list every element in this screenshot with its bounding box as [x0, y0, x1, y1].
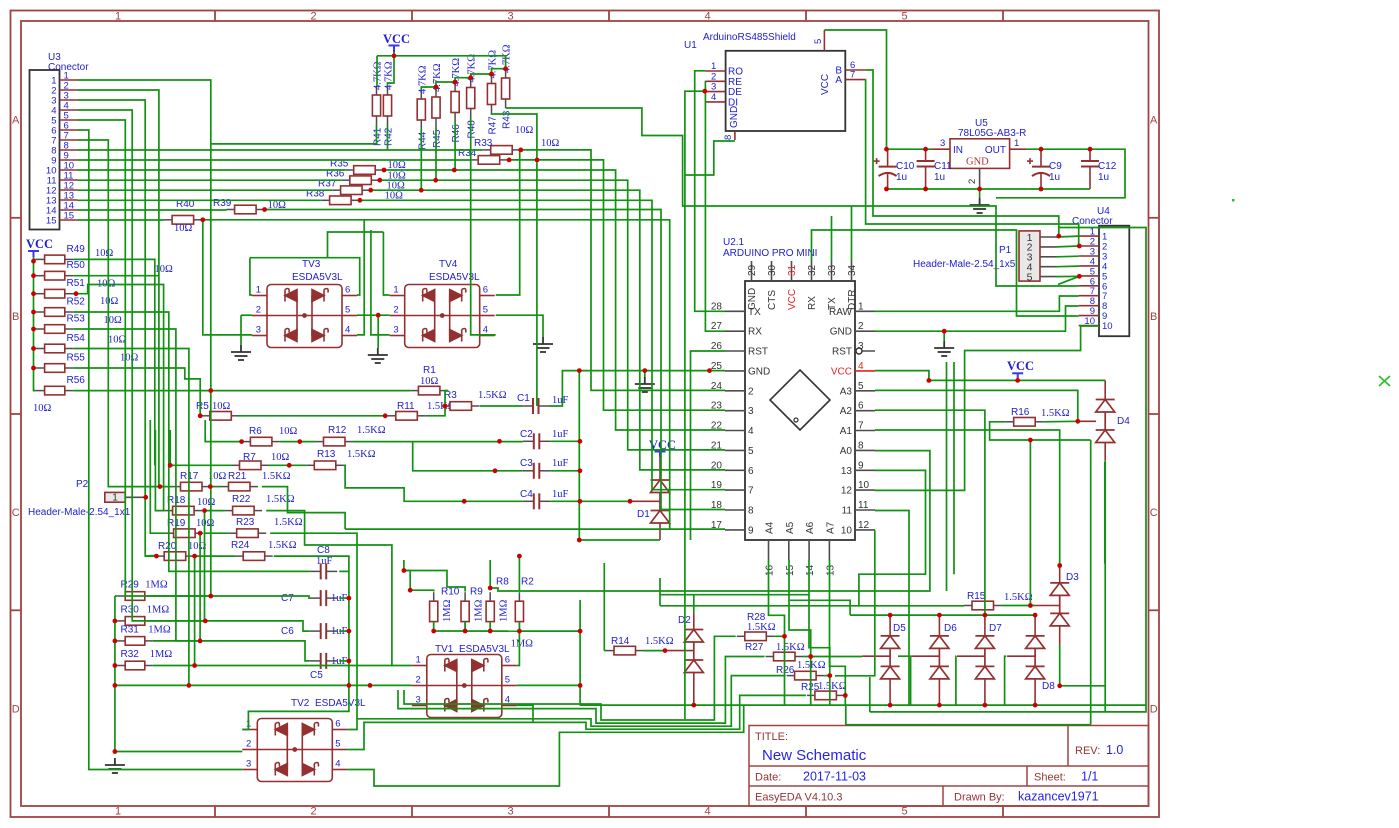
resistor R5: [202, 415, 210, 417]
junction: [198, 531, 203, 536]
junction: [203, 619, 208, 624]
svg-text:10Ω: 10Ω: [155, 264, 174, 275]
resistor R23: [229, 532, 237, 534]
wire R9 bot: [464, 622, 466, 631]
wire VCC stub: [34, 311, 36, 313]
svg-text:1uF: 1uF: [552, 429, 569, 440]
wire U5 gnd rail: [887, 188, 1091, 190]
junction: [1075, 419, 1080, 424]
resistor R2: [518, 592, 520, 601]
svg-text:1uF: 1uF: [552, 395, 569, 406]
wire R40 to TV3.3: [202, 220, 205, 335]
wire A5 to R27: [789, 560, 811, 657]
svg-text:1: 1: [115, 806, 121, 818]
ground: [533, 337, 553, 352]
wire R3-C1: [480, 405, 522, 407]
wire R46 top chain: [455, 78, 471, 82]
resistor R33: [483, 149, 491, 151]
resistor R8: [489, 592, 491, 601]
junction: [376, 313, 381, 318]
junction: [347, 683, 352, 688]
junction: [208, 594, 213, 599]
wire TV3.1-6 link: [250, 258, 360, 295]
svg-text:2: 2: [858, 321, 864, 332]
capacitor C5: [310, 660, 321, 662]
junction: [358, 198, 363, 203]
wire v1090: [1090, 440, 1092, 725]
svg-text:9: 9: [748, 525, 754, 536]
wire P1.5-U4.5: [1057, 275, 1080, 277]
resistor R36: [342, 179, 350, 181]
resistor R46: [454, 83, 456, 92]
svg-text:Header-Male-2.54_1x1: Header-Male-2.54_1x1: [28, 507, 131, 518]
svg-text:C12: C12: [1098, 161, 1117, 172]
junction: [208, 388, 213, 393]
wire R48 to TV4.4: [471, 118, 496, 335]
svg-text:12: 12: [858, 520, 870, 531]
wire D3 bot link: [1060, 686, 1106, 712]
svg-text:REV:: REV:: [1075, 745, 1100, 757]
svg-text:4: 4: [335, 759, 340, 770]
wire filler v954: [953, 362, 955, 574]
junction: [31, 310, 36, 315]
junction: [377, 178, 382, 183]
svg-text:R10: R10: [441, 587, 460, 598]
wire U3.6: [78, 130, 243, 770]
resistor R53: [36, 328, 45, 330]
wire R52 out: [74, 312, 310, 571]
junction: [578, 683, 583, 688]
svg-text:6: 6: [748, 466, 754, 477]
wire U3.5: [78, 120, 310, 598]
resistor R27: [766, 656, 774, 658]
net flag VCC (top): [389, 46, 400, 53]
svg-text:TITLE:: TITLE:: [755, 731, 788, 743]
wire R31 out: [153, 640, 200, 642]
wire U3.11a: [78, 179, 342, 181]
junction: [143, 495, 148, 500]
wire D6 mid down: [910, 656, 913, 705]
svg-text:GND: GND: [830, 327, 852, 338]
svg-text:ARDUINO PRO MINI: ARDUINO PRO MINI: [723, 248, 817, 259]
svg-text:10Ω: 10Ω: [174, 223, 193, 234]
wire U3.15a: [78, 219, 165, 221]
svg-text:6: 6: [505, 655, 510, 666]
resistor R20: [156, 555, 164, 557]
svg-text:R29: R29: [121, 580, 140, 591]
junction: [493, 468, 498, 473]
svg-text:5: 5: [505, 675, 510, 686]
capacitor C1: [522, 405, 533, 407]
svg-text:4: 4: [711, 92, 716, 103]
TVS diode array TV1 (ESDA5V3L): [412, 655, 517, 718]
svg-text:GND: GND: [748, 366, 770, 377]
svg-text:Drawn By:: Drawn By:: [954, 792, 1005, 804]
wire U3.11b: [379, 180, 725, 450]
junction: [937, 703, 942, 708]
svg-text:B: B: [1150, 311, 1157, 323]
svg-text:1.5KΩ: 1.5KΩ: [262, 471, 291, 482]
diode D4: [1096, 400, 1115, 443]
svg-text:33: 33: [827, 264, 838, 276]
svg-text:9: 9: [858, 460, 864, 471]
wire TV1.2 line: [115, 684, 412, 686]
svg-text:R48: R48: [467, 120, 478, 139]
wire v194 to TV1.1: [195, 556, 392, 665]
wire VCC stub: [34, 258, 36, 260]
capacitor C4: [523, 500, 534, 502]
svg-text:2: 2: [748, 386, 754, 397]
svg-text:5: 5: [858, 381, 864, 392]
wire C3 left: [495, 470, 523, 472]
svg-text:4: 4: [748, 426, 754, 437]
resistor R47: [491, 75, 493, 84]
resistor R21: [221, 486, 229, 488]
junction: [1088, 147, 1093, 152]
wire R8 bot: [489, 622, 491, 631]
wire v200: [199, 533, 201, 641]
svg-text:R1: R1: [423, 365, 436, 376]
svg-text:1: 1: [1014, 138, 1019, 149]
wire U3.1: [78, 80, 211, 391]
wire R10 bot: [433, 622, 435, 631]
junction: [1077, 274, 1082, 279]
wire R15 right: [1002, 605, 1036, 607]
svg-text:Date:: Date:: [755, 772, 781, 784]
junction: [1033, 703, 1038, 708]
wire R44 bottom: [420, 129, 422, 190]
svg-text:D3: D3: [1066, 572, 1079, 583]
svg-text:1: 1: [858, 301, 864, 312]
junction: [368, 188, 373, 193]
junction: [707, 368, 712, 373]
wire D5 mid link: [898, 655, 909, 657]
svg-text:GND: GND: [729, 106, 740, 128]
svg-text:4: 4: [704, 806, 710, 818]
resistor R41: [376, 86, 378, 95]
svg-text:12: 12: [841, 486, 853, 497]
junction: [392, 53, 397, 58]
svg-text:10: 10: [1102, 321, 1113, 332]
junction: [382, 168, 387, 173]
junction: [1039, 187, 1044, 192]
wire U1.A to U4.2: [865, 80, 1078, 246]
svg-text:1.0: 1.0: [1106, 743, 1123, 757]
wire R27 left loop L2: [398, 657, 765, 724]
svg-text:Header-Male-2.54_1x5: Header-Male-2.54_1x5: [913, 259, 1016, 270]
svg-text:A7: A7: [825, 521, 836, 534]
resistor R44: [420, 90, 422, 99]
svg-text:10Ω: 10Ω: [108, 335, 127, 346]
svg-text:R16: R16: [1011, 407, 1030, 418]
wire R54 out: [74, 349, 189, 686]
svg-text:6: 6: [858, 401, 864, 412]
svg-text:D7: D7: [989, 623, 1002, 634]
wire R2 bot: [518, 622, 520, 632]
junction: [808, 654, 813, 659]
resistor R49: [36, 258, 45, 260]
svg-text:R27: R27: [745, 642, 764, 653]
svg-text:C6: C6: [281, 626, 294, 637]
wire C4 right to D1: [550, 500, 630, 502]
wire TV1.4 down: [517, 705, 533, 723]
diode D6: [930, 636, 949, 679]
wire R7 left: [170, 430, 231, 465]
wire U3.9b: [509, 160, 725, 410]
svg-text:32: 32: [807, 264, 818, 276]
diode D8: [1026, 636, 1045, 679]
svg-text:10Ω: 10Ω: [271, 452, 290, 463]
TVS diode array TV2 (ESDA5V3L): [242, 719, 347, 782]
capacitor C7: [310, 597, 321, 599]
resistor R25: [807, 694, 815, 696]
wire R16 right: [1043, 420, 1078, 423]
wire R10 top: [404, 571, 434, 592]
wire rail left elbow: [790, 600, 850, 615]
svg-text:R45: R45: [432, 129, 443, 148]
resistor R37: [333, 189, 341, 191]
wire 12 to U4.10: [875, 326, 1099, 490]
svg-text:4.7KΩ: 4.7KΩ: [373, 61, 384, 90]
svg-text:8: 8: [748, 506, 754, 517]
wire R14 left up: [603, 563, 605, 651]
svg-text:VCC: VCC: [831, 366, 852, 377]
wire R53 out: [74, 329, 310, 661]
wire U5 out rail: [1027, 148, 1091, 150]
wire U3.10a: [78, 169, 346, 171]
junction: [31, 259, 36, 264]
wire P1.5 diag: [1058, 276, 1079, 284]
wire R18-R22: [204, 510, 225, 512]
svg-text:A6: A6: [805, 521, 816, 534]
wire U3.13a: [78, 199, 322, 201]
svg-text:D: D: [1150, 703, 1158, 715]
junction: [1039, 147, 1044, 152]
svg-text:1MΩ: 1MΩ: [511, 639, 534, 650]
svg-text:16: 16: [765, 564, 776, 576]
svg-text:C4: C4: [520, 489, 533, 500]
wire U3.7: [78, 140, 173, 487]
svg-text:TV2: TV2: [291, 698, 310, 709]
wire A7 to R25: [830, 560, 846, 695]
wire VCC stub: [34, 293, 36, 295]
capacitor C11: [925, 149, 927, 161]
junction: [578, 629, 583, 634]
svg-text:1: 1: [115, 11, 121, 23]
svg-text:D: D: [12, 703, 20, 715]
svg-text:1.5KΩ: 1.5KΩ: [274, 517, 303, 528]
svg-text:R53: R53: [67, 314, 86, 325]
wire P1.3-U4.3: [1057, 255, 1079, 258]
svg-text:1MΩ: 1MΩ: [499, 599, 510, 622]
resistor R39: [227, 209, 235, 211]
wire R19-R23: [205, 532, 229, 534]
svg-text:1u: 1u: [934, 172, 945, 183]
wire VCC4: [875, 371, 929, 381]
wire R31 in: [115, 640, 117, 642]
svg-text:1: 1: [416, 655, 421, 666]
svg-text:34: 34: [847, 264, 858, 276]
svg-text:1: 1: [256, 285, 261, 296]
wire TV4.3: [371, 230, 390, 335]
junction: [262, 207, 267, 212]
junction: [507, 158, 512, 163]
junction: [31, 346, 36, 351]
svg-text:ESDA5V3L: ESDA5V3L: [315, 698, 366, 709]
resistor R51: [36, 293, 45, 295]
ground: [934, 341, 954, 356]
capacitor C8: [310, 570, 321, 572]
wire TV4.5 gnd: [496, 315, 543, 337]
wire rail 631: [519, 630, 580, 632]
wire v210 down: [210, 391, 212, 596]
wire U3.8a: [78, 149, 483, 151]
junction: [113, 619, 118, 624]
svg-text:3: 3: [393, 325, 398, 336]
wire U3.10b: [383, 170, 725, 430]
resistor R54: [36, 348, 45, 350]
junction: [488, 629, 493, 634]
junction: [977, 187, 982, 192]
svg-text:3: 3: [246, 759, 251, 770]
wire R45 top chain: [436, 82, 455, 87]
svg-text:8: 8: [858, 440, 864, 451]
svg-text:C11: C11: [934, 161, 952, 172]
svg-text:kazancev1971: kazancev1971: [1018, 790, 1099, 804]
wire C1-GND25: [550, 371, 726, 406]
wire U1.RO-TX: [695, 71, 725, 311]
svg-text:1MΩ: 1MΩ: [145, 580, 168, 591]
svg-text:10: 10: [858, 480, 870, 491]
junction: [888, 613, 893, 618]
junction: [578, 439, 583, 444]
svg-text:A1: A1: [840, 426, 853, 437]
wire D2 top green: [693, 595, 695, 613]
junction: [927, 378, 932, 383]
wire R27 right: [803, 657, 811, 706]
wire R27 to D5 mid: [811, 656, 862, 658]
wire P1.2-U4.2: [1057, 245, 1079, 248]
wire P1.1-U4.1: [1057, 235, 1079, 238]
junction: [453, 80, 458, 85]
wire R47 to R34 line: [492, 114, 537, 160]
junction: [443, 404, 448, 409]
wire R3 left: [442, 405, 445, 407]
wire VCC out down: [996, 149, 1125, 198]
junction: [1015, 378, 1020, 383]
svg-text:2: 2: [246, 739, 251, 750]
junction: [198, 639, 203, 644]
svg-text:R14: R14: [611, 636, 630, 647]
junction: [434, 85, 439, 90]
wire v1030 to R15: [1029, 440, 1031, 606]
wire R25 right: [843, 695, 846, 705]
svg-text:2: 2: [310, 806, 316, 818]
svg-text:RST: RST: [832, 347, 852, 358]
svg-text:RST: RST: [748, 347, 768, 358]
resistor R6: [242, 441, 250, 443]
wire VCC stub: [34, 328, 36, 330]
wire VCC left rail: [34, 257, 36, 391]
junction: [691, 703, 696, 708]
capacitor C3: [523, 470, 534, 472]
svg-text:R46: R46: [451, 124, 462, 143]
svg-text:R30: R30: [121, 604, 140, 615]
svg-text:VCC: VCC: [26, 237, 53, 251]
svg-text:D4: D4: [1117, 416, 1130, 427]
svg-text:4.7KΩ: 4.7KΩ: [384, 61, 395, 90]
svg-text:1MΩ: 1MΩ: [442, 599, 453, 622]
junction: [942, 329, 947, 334]
wire R29 in: [115, 595, 117, 597]
wire C8 right: [339, 570, 349, 572]
resistor R48: [470, 79, 472, 88]
junction: [577, 538, 582, 543]
header P1 Header-Male-2.54_1x5: [1019, 231, 1040, 281]
wire RX32 to U4.9: [812, 230, 1079, 316]
wire R29 out: [153, 595, 211, 597]
capacitor C9: [1040, 149, 1042, 166]
wire U3.13b: [359, 200, 725, 489]
wire U1.RE-RX: [705, 81, 725, 331]
svg-text:R47: R47: [488, 116, 499, 135]
wire GND2 to U4.8: [875, 306, 1079, 331]
diode D5: [881, 636, 900, 679]
svg-text:RX: RX: [748, 327, 762, 338]
junction: [452, 168, 457, 173]
junction: [113, 663, 118, 668]
svg-text:R31: R31: [121, 624, 140, 635]
resistor R12: [316, 441, 324, 443]
svg-text:10Ω: 10Ω: [95, 248, 114, 259]
wire D1 bottom rail: [579, 539, 660, 541]
svg-text:31: 31: [787, 264, 798, 276]
junction: [642, 368, 647, 373]
svg-text:A5: A5: [785, 521, 796, 534]
connector U4: [1099, 226, 1129, 337]
wire R12-C2: [353, 441, 523, 443]
wire R43 top: [505, 56, 507, 69]
wire R42 bottom: [387, 125, 389, 150]
svg-text:10Ω: 10Ω: [33, 403, 52, 414]
wire D4 bottom down: [1104, 460, 1106, 686]
svg-text:1.5KΩ: 1.5KΩ: [747, 622, 776, 633]
svg-text:1.5KΩ: 1.5KΩ: [645, 636, 674, 647]
wire R46 bottom: [454, 122, 456, 171]
svg-text:7: 7: [858, 421, 864, 432]
wire R17-R21: [210, 486, 220, 488]
junction: [113, 749, 118, 754]
svg-text:15: 15: [46, 216, 57, 227]
wire R16 left loop: [990, 422, 1091, 440]
svg-text:5: 5: [1027, 271, 1033, 283]
junction: [433, 178, 438, 183]
svg-text:R55: R55: [67, 353, 86, 364]
wire TV3.4 up: [357, 220, 364, 335]
svg-text:R12: R12: [328, 425, 347, 436]
wire U1.GND8 elbow: [685, 141, 735, 175]
svg-text:ArduinoRS485Shield: ArduinoRS485Shield: [703, 32, 796, 43]
junction: [347, 629, 352, 634]
svg-text:5: 5: [901, 806, 907, 818]
wire R14 right: [644, 650, 666, 652]
svg-text:C9: C9: [1049, 161, 1062, 172]
junction: [663, 648, 668, 653]
resistor R56: [36, 390, 45, 392]
wire R49 out: [74, 259, 155, 465]
svg-text:10Ω: 10Ω: [515, 125, 534, 136]
svg-text:1.5KΩ: 1.5KΩ: [1004, 592, 1033, 603]
